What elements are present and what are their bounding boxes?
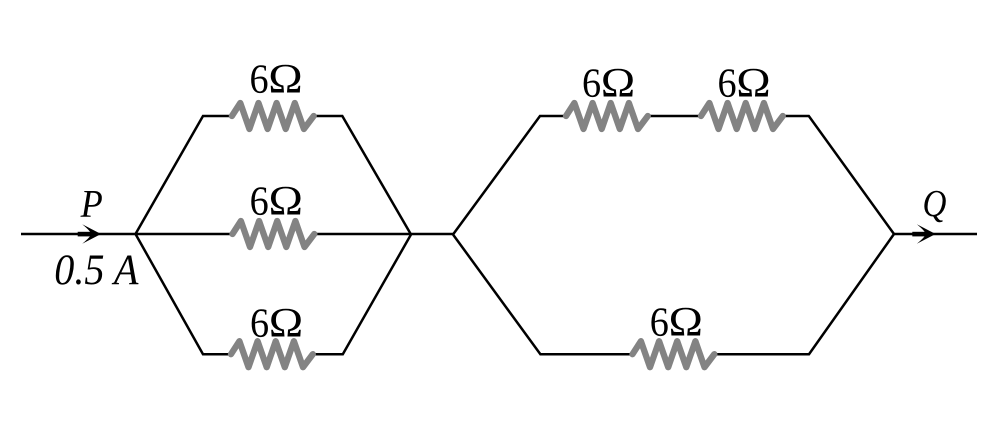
wire left-top branch down diagonal (314, 116, 411, 235)
wire left-top branch up diagonal (136, 116, 232, 234)
wire exit right (894, 233, 977, 236)
wire right-bottom branch down diagonal (453, 235, 633, 355)
wire right-bottom branch up diagonal (715, 234, 895, 354)
label 6Ω for R4 (582, 60, 636, 107)
svg-text:Q: Q (923, 182, 947, 225)
wire between series resistors (648, 115, 701, 118)
label 6Ω for R2 (250, 178, 304, 225)
svg-text:0.5 A: 0.5 A (54, 246, 139, 293)
resistor R1 (left group top) (232, 103, 314, 129)
wire left-middle branch left segment (136, 233, 233, 236)
arrow current direction at Q (912, 224, 935, 244)
label 6Ω for R3 (250, 300, 304, 347)
resistor R6 (right group bottom) (633, 341, 715, 367)
resistor R4 (right group top first) (566, 103, 648, 129)
resistor R5 (right group top second) (701, 103, 783, 129)
wire left-middle to right group (node B to node C link) (315, 233, 454, 236)
wire right-top branch up diagonal (453, 116, 566, 235)
arrow current direction at P (78, 224, 101, 244)
label 6Ω for R1 (249, 56, 303, 103)
wire left-bottom branch up diagonal (313, 235, 411, 355)
resistor R3 (left group bottom) (231, 341, 313, 367)
wire left-bottom branch down diagonal (136, 234, 232, 354)
resistor R2 (left group middle) (233, 221, 315, 247)
wire entry left (21, 233, 136, 236)
label 6Ω for R6 (650, 299, 704, 346)
wire right-top branch down diagonal (783, 116, 894, 234)
svg-text:P: P (80, 182, 103, 225)
label 6Ω for R5 (717, 60, 771, 107)
